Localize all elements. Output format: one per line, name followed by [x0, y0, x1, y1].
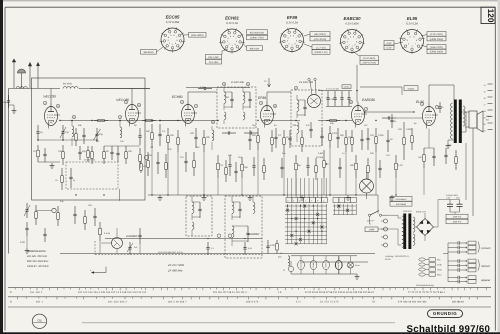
coil antenna L1 [16, 87, 27, 89]
box MW990 [342, 85, 351, 89]
svg-text:L: L [305, 199, 306, 202]
svg-text:Leistung: 110/125/220 V~: Leistung: 110/125/220 V~ [385, 255, 411, 258]
oscillator section dashed box [66, 162, 118, 189]
svg-text:EL95: EL95 [407, 16, 418, 21]
svg-text:401 1: 401 1 [36, 301, 43, 304]
resistor RX19 [225, 160, 227, 168]
resistor RX0 [75, 128, 77, 134]
svg-text:6,3V 0,3A: 6,3V 0,3A [226, 22, 238, 25]
antenna FM dome [18, 69, 26, 73]
wire V6 anode up [428, 85, 430, 103]
svg-text:40p: 40p [82, 150, 87, 153]
pin number circle 1 [420, 102, 423, 105]
pin number circle 2 [294, 86, 297, 89]
wire V1 anode up [50, 89, 52, 104]
coil L2 tuner [72, 126, 74, 137]
wire antenna bus 2 [79, 88, 150, 90]
wire tuner ground segment [38, 161, 60, 163]
svg-text:(M13 Blatt): (M13 Blatt) [396, 203, 406, 206]
svg-text:ECH81: ECH81 [312, 263, 315, 269]
capacitor CX34 [74, 206, 76, 214]
voltage box EL95 anode b [427, 49, 446, 54]
capacitor CH29 [222, 132, 228, 134]
scan edge left black strip [0, 0, 3, 334]
tube V3 ECH81 mixer [182, 105, 195, 124]
svg-text:0,1 0,1 5n 80p: 0,1 0,1 5n 80p [326, 88, 340, 91]
svg-text:LW 145- 350 kHz: LW 145- 350 kHz [27, 255, 48, 258]
svg-text:Schaltbild 997/60: Schaltbild 997/60 [407, 324, 491, 334]
rectifier bridge B250C75 [417, 219, 434, 236]
IF transformer Fi2 (dashed box) [291, 90, 322, 146]
capacitor C11 [195, 128, 197, 137]
svg-text:25p: 25p [99, 133, 104, 136]
resistor RH27 [94, 120, 98, 122]
coil Fi3 a [232, 202, 234, 213]
capacitor antenna input [8, 95, 10, 101]
pin number circle 7 [435, 105, 438, 108]
capacitor C9 tuner [139, 128, 141, 136]
capacitor CX17 [445, 148, 447, 155]
svg-text:18: 18 [484, 110, 486, 113]
resistor R15 [375, 128, 377, 137]
capacitor Fi3 b [247, 226, 249, 233]
capacitor CX22 [281, 158, 283, 167]
resistor R17 grid leak [403, 122, 405, 138]
svg-text:21: 21 [484, 130, 486, 133]
svg-text:TA 1,35V: TA 1,35V [209, 61, 219, 64]
svg-text:0,5M: 0,5M [318, 152, 323, 155]
svg-text:UKW 87- 100 MHz: UKW 87- 100 MHz [27, 265, 49, 268]
svg-text:479 480 48 482 483 484: 479 480 48 482 483 484 [398, 301, 427, 304]
svg-text:19: 19 [484, 117, 486, 120]
svg-text:HUMMER: HUMMER [248, 233, 259, 236]
capacitor C28 [207, 242, 209, 248]
resistor RX18 [455, 150, 457, 157]
svg-text:16: 16 [484, 97, 486, 100]
IF transformer Fi4 (dashed box) [186, 196, 212, 236]
resistor R10 [203, 130, 205, 138]
voltage box ECH81 k lower-left 2 [206, 59, 222, 64]
svg-text:4 71: 4 71 [296, 301, 301, 304]
scan edge bottom black strip [0, 332, 500, 334]
wire EL95 socket to boxes [421, 35, 427, 37]
capacitor C16 tone [439, 102, 441, 107]
capacitor C34 [348, 91, 350, 98]
tube socket EL95 (top view) [401, 30, 424, 53]
tube V2 half-ECC85 oscillator [126, 105, 139, 124]
wire tuner internal bus [38, 139, 97, 141]
tube socket ECC85 (top view) [161, 28, 184, 51]
resistor RX35 [84, 210, 86, 217]
wire AM line [105, 238, 262, 240]
band switch column stubs [287, 178, 289, 198]
junction dot J18 [375, 120, 376, 121]
capacitor C8 tuner [111, 146, 113, 152]
wire mid verticals [217, 178, 219, 195]
wire discriminator feeds [310, 81, 312, 95]
svg-text:ECH81: ECH81 [172, 95, 183, 99]
mains switch S1 [368, 214, 370, 216]
svg-text:EABC80: EABC80 [362, 98, 375, 102]
GRUNDIG logo box [428, 310, 463, 318]
svg-text:(1,7÷2V): (1,7÷2V) [316, 46, 325, 49]
capacitor C10 [159, 124, 161, 134]
wire V7 leads [116, 228, 118, 238]
svg-text:6,3V 0,45A: 6,3V 0,45A [166, 21, 180, 24]
wire tag Grün [419, 268, 425, 271]
resistor R5 tuner [125, 146, 127, 152]
svg-text:ECC85: ECC85 [166, 15, 180, 20]
wire Fi1 out [242, 119, 244, 122]
svg-text:115 116 117 118 14 120 121 2: 115 116 117 118 14 120 121 2 [213, 291, 247, 294]
coil Fi1 primary [224, 92, 226, 103]
capacitor CX24 [339, 158, 341, 167]
resistor R22 [355, 155, 357, 163]
resistor RX38 [276, 240, 278, 244]
svg-text:LW 1,45V: LW 1,45V [208, 56, 219, 59]
junction dot J0 [59, 120, 60, 121]
tube V5 EABC80 demod/AF [352, 106, 365, 125]
resistor R23 [395, 155, 397, 163]
sheet number box 120 [481, 7, 495, 23]
wires EF89 verticals [257, 150, 259, 195]
wire right vertical junction [472, 128, 474, 216]
resistor R19 [217, 155, 219, 163]
junction dot J9 [203, 194, 204, 195]
baseline under rulers [82, 322, 395, 324]
capacitor C20 [307, 157, 309, 166]
pin number circle 4 [118, 115, 121, 118]
resistor R1 tuner [37, 145, 39, 150]
svg-text:464 5 46 466 7: 464 5 46 466 7 [168, 301, 187, 304]
resistor RX10 [271, 130, 273, 138]
svg-text:101 102 103 104 4 105 106 107: 101 102 103 104 4 105 106 107 14 0 108 1… [78, 291, 147, 294]
band switch grid dots [287, 205, 288, 206]
junction dot J19 [395, 194, 396, 195]
svg-text:461 462 464 2: 461 462 464 2 [108, 301, 128, 304]
wire V4 anode to IF2 [266, 92, 268, 102]
voltage box EL95 g1 left [384, 41, 394, 45]
resistor R6 tuner [139, 148, 141, 155]
wire connector field feed [447, 243, 449, 282]
electrolytic C50a [449, 200, 451, 205]
capacitor CH30 [244, 132, 250, 134]
antenna dipole [12, 62, 16, 88]
connector group 3 rows [448, 277, 458, 279]
resistor R9 [177, 130, 179, 138]
pin number circle 5 [246, 82, 249, 85]
svg-text:466 8 470: 466 8 470 [246, 301, 259, 304]
resistor RX14 [351, 130, 353, 138]
connector J1 circle [52, 208, 56, 212]
voltage box ECH81 g3 [247, 46, 263, 51]
wires EABC80 verticals [329, 148, 331, 195]
svg-text:KW 0,8V: KW 0,8V [250, 47, 260, 50]
junction dot J2 [91, 120, 92, 121]
svg-text:Fernseh: Fernseh [481, 247, 491, 250]
svg-text:51 52 53 54 55 56 57 58 231 23: 51 52 53 54 55 56 57 58 231 232 61 62 63… [305, 291, 375, 294]
ground symbol G2 [249, 195, 251, 198]
resistor R20 [241, 157, 243, 164]
svg-text:(265 V≈): (265 V≈) [453, 221, 462, 224]
svg-text:40 VA: 40 VA [385, 258, 391, 261]
band switch contact grid [287, 204, 289, 244]
pin number circle 9 [56, 104, 59, 107]
svg-text:Fi 5307-308: Fi 5307-308 [231, 81, 244, 84]
wire stub a [94, 272, 106, 274]
resistor RX33 [57, 206, 59, 213]
capacitor C31 [327, 91, 329, 98]
tube socket EABC80 (top view) [341, 30, 364, 53]
electrolytic C50b [459, 200, 461, 205]
box U-RP [365, 227, 378, 232]
svg-text:MW990: MW990 [344, 85, 350, 88]
capacitor C23 4700 [26, 222, 28, 228]
svg-text:EABC80: EABC80 [344, 16, 362, 21]
voltage box EL95 anode a [427, 44, 446, 49]
tube V6 EL95 output [423, 107, 436, 126]
wire EABC80 socket to boxes [353, 52, 359, 56]
svg-text:NTR 512: NTR 512 [403, 210, 413, 213]
svg-text:(170÷215V): (170÷215V) [314, 38, 327, 41]
brace TA [478, 242, 479, 253]
wire Fi1 top feed [186, 87, 250, 89]
capacitor C32 [334, 91, 336, 98]
junction dot J7 [167, 194, 168, 195]
pin number circle 8 [211, 120, 214, 123]
voltage box EABC80 anode [360, 56, 379, 60]
pin number circle 6 [137, 103, 140, 106]
tube V7 circle [112, 238, 123, 249]
IF transformer Fi1 (dashed box) [217, 87, 256, 128]
voltage box EL95 g2 b [427, 36, 446, 41]
svg-text:ZF 10,7 MHz: ZF 10,7 MHz [167, 263, 185, 267]
wire EABC80 output line [365, 111, 414, 113]
heater chain ground [356, 274, 358, 277]
wire antenna bus [9, 88, 61, 90]
svg-text:SB 30mA: SB 30mA [143, 51, 154, 54]
svg-text:(UKW 200V): (UKW 200V) [430, 51, 444, 54]
circle fuse Si [288, 266, 293, 271]
pin number circle 5 [72, 115, 75, 118]
label Netzteil note [390, 197, 412, 202]
power transformer Tr1 core [403, 214, 406, 250]
svg-text:4,3V: 4,3V [387, 42, 392, 45]
svg-text:Apparat: Apparat [480, 279, 490, 282]
resistor R27 osc [61, 168, 63, 176]
svg-text:(1V-0,3mA): (1V-0,3mA) [363, 57, 375, 60]
resistor RX25 [367, 158, 369, 166]
svg-text:17: 17 [484, 104, 486, 107]
resistor RX23 [315, 158, 317, 166]
brace group2 [478, 260, 479, 271]
svg-text:EL95: EL95 [416, 100, 424, 104]
resistor R28 AGC [140, 161, 142, 164]
heater oval ECC85 [298, 260, 305, 269]
band switch header boxes [286, 198, 292, 203]
pin number circle 1 [124, 100, 127, 103]
capacitor C24 [44, 228, 46, 234]
voltage box ECC85 cathode [141, 50, 157, 55]
svg-text:52 473 74 475: 52 473 74 475 [320, 301, 339, 304]
svg-text:10n: 10n [398, 128, 403, 131]
resistor R14 [345, 130, 347, 138]
svg-text:PS 5307-509: PS 5307-509 [299, 81, 314, 84]
svg-text:750 750 1n: 750 750 1n [327, 98, 337, 101]
box AF note [404, 86, 418, 91]
connector group 2 rows [448, 260, 458, 262]
output transformer windings [451, 103, 453, 139]
resistor RX21 [263, 158, 265, 166]
resistor RH28 [142, 120, 146, 122]
svg-text:Wellenbereiche:: Wellenbereiche: [27, 250, 46, 253]
wire left rail [8, 89, 10, 254]
resistor R3 tuner [87, 146, 89, 151]
svg-text:(UKW 205V): (UKW 205V) [430, 38, 444, 41]
capacitor CX36 [94, 208, 96, 216]
junction dot J5 [151, 194, 152, 195]
coil BV 9700 [63, 87, 78, 89]
scan edge right [498, 0, 500, 334]
capacitor C6 tuner [79, 146, 81, 152]
dial ruler line 1 [8, 287, 491, 289]
voltage box EF89 anode [310, 36, 330, 41]
resistor R26 [99, 222, 101, 228]
svg-text:9-A 0k: 9-A 0k [104, 232, 111, 235]
svg-text:150: 150 [58, 150, 63, 153]
svg-text:6,3V 0,3A: 6,3V 0,3A [286, 22, 298, 25]
wire EL95 cathode [428, 129, 430, 149]
capacitor Fi2 b [310, 122, 312, 129]
mains plug pins [384, 219, 388, 223]
junction dot J1 [75, 194, 76, 195]
svg-text:485 486 48: 485 486 48 [452, 301, 464, 304]
capacitor CX7 [185, 152, 187, 161]
wire grid V3 [160, 120, 182, 122]
dial lamp crossed circle [348, 262, 354, 268]
svg-text:HUMMER: HUMMER [126, 235, 137, 238]
svg-text:MW 510-1620 kHz: MW 510-1620 kHz [27, 260, 49, 263]
coil L3 osc [120, 127, 122, 138]
svg-text:151 152 1: 151 152 1 [30, 291, 43, 294]
connector group TA rows [448, 242, 458, 244]
svg-text:U-RP: U-RP [369, 229, 375, 232]
capacitor Fi1 secondary [249, 92, 251, 99]
wire AF top line [360, 86, 402, 88]
wires ECH81 stage verticals [151, 148, 153, 195]
svg-text:5% Kadmol: 5% Kadmol [396, 198, 407, 201]
wire EF89 socket to boxes [304, 34, 310, 36]
resistor R21 [295, 155, 297, 163]
junction dot J8 [177, 120, 178, 121]
capacitor C3 tuner [37, 125, 39, 132]
resistor RX2 [91, 146, 93, 152]
svg-text:ECC85: ECC85 [300, 263, 303, 269]
wire heater rail bottom [291, 273, 357, 275]
capacitor CX11 [289, 130, 291, 138]
pin number circle 2 [180, 100, 183, 103]
svg-text:Gelb: Gelb [437, 264, 442, 267]
pin number circle 7 [364, 107, 367, 110]
band switch crosses 2 [337, 205, 349, 212]
svg-text:Dr: Dr [280, 252, 283, 255]
svg-text:100p: 100p [3, 101, 9, 104]
svg-text:Rot: Rot [437, 259, 441, 262]
capacitor CH32 [198, 88, 204, 90]
wire electrolytics feed [438, 199, 450, 201]
resistor R2 tuner [62, 145, 64, 152]
svg-text:0,5M: 0,5M [406, 128, 411, 131]
svg-text:14: 14 [484, 84, 486, 87]
svg-text:300: 300 [252, 134, 257, 137]
wire osc box drop [119, 189, 121, 201]
scan edge top [0, 0, 500, 1]
wire ECH81 socket to lower boxes [221, 51, 223, 54]
coil Dr heater choke [288, 256, 290, 266]
ground symbol G4 [347, 195, 349, 198]
voltage box ECH81 anode [247, 35, 268, 40]
trimmer C22 lower-left [26, 203, 28, 210]
wire lower-left [26, 236, 28, 248]
svg-text:6,3V 0,2A: 6,3V 0,2A [406, 23, 418, 26]
resistor RX6 [165, 154, 167, 163]
svg-text:EF89: EF89 [287, 15, 298, 20]
pin circle 124 [144, 155, 148, 159]
antenna drop arrows [28, 63, 39, 89]
wire detector caps rail [318, 90, 352, 92]
svg-text:71 72 73 74 75 76 77 78 79 80: 71 72 73 74 75 76 77 78 79 80 4 [408, 291, 446, 294]
svg-text:C: C [10, 291, 12, 294]
resistor R18 cathode [423, 148, 425, 155]
pilot assembly circle [360, 179, 374, 193]
wire lower bus [60, 253, 375, 255]
wire AVC line [300, 261, 368, 263]
dial ruler line 3 [8, 306, 491, 308]
svg-text:5n: 5n [394, 120, 396, 123]
heater oval ECH81 [310, 260, 317, 269]
speaker LS [469, 111, 477, 128]
voltage box EL95 g2 a [427, 32, 446, 37]
capacitor C35 tone [391, 114, 393, 120]
pin number circle 9 [349, 100, 352, 103]
resistor R24 lower-left [35, 205, 37, 212]
resistor R16 volume pot [323, 150, 325, 161]
svg-text:Grün: Grün [437, 269, 443, 272]
label electrolytics [446, 214, 468, 219]
voltage box EF89 g2 [310, 32, 330, 37]
wire signal bus segment 3 [318, 120, 352, 122]
resistor R12 [283, 130, 285, 138]
svg-text:5Ω: 5Ω [486, 119, 489, 122]
svg-text:Störsch.: Störsch. [481, 265, 491, 268]
voltage box EF89 k [312, 45, 330, 50]
junction dot J14 [295, 120, 296, 121]
wire V3 anode to IF1 [187, 92, 189, 101]
junction dot J4 [119, 120, 120, 121]
svg-text:ZF 460 kHz: ZF 460 kHz [167, 269, 183, 273]
svg-text:EF89: EF89 [325, 263, 328, 267]
dial ruler line 2 [8, 296, 491, 298]
svg-text:1M: 1M [180, 156, 183, 159]
capacitor C4 tuner [44, 148, 46, 154]
resistor R4 tuner [103, 146, 105, 152]
capacitor CX9 [249, 130, 251, 139]
wire V5 anode up [356, 65, 358, 102]
wire ground bus [148, 194, 378, 196]
svg-text:20: 20 [484, 123, 486, 126]
resistor RX12 [301, 130, 303, 138]
resistor RX4 [147, 152, 149, 161]
